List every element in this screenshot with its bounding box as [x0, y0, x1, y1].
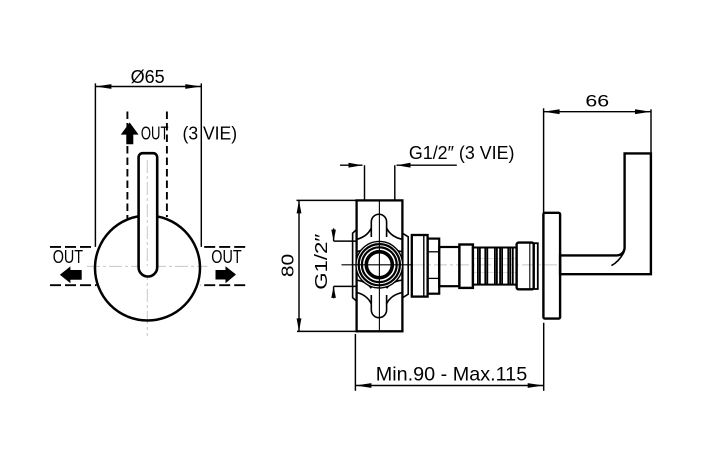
- svg-text:OUT: OUT: [211, 247, 241, 267]
- center line vertical left view: [146, 157, 148, 336]
- svg-text:G1/2″: G1/2″: [311, 234, 331, 290]
- dim 66 arrow right: [635, 109, 651, 114]
- dim 66 ext line left: [543, 108, 545, 213]
- svg-text:66: 66: [585, 93, 609, 111]
- svg-text:Ø65: Ø65: [131, 66, 165, 87]
- dim O65 arrow left: [95, 84, 111, 89]
- port circle 2: [359, 244, 400, 285]
- body bottom slot (dome): [371, 295, 386, 318]
- body center line horizontal: [342, 264, 413, 266]
- dim 80 arrow bottom: [297, 318, 302, 331]
- body flange left: [353, 230, 357, 302]
- svg-text:(3 VIE): (3 VIE): [183, 123, 238, 143]
- dim 80 ext line top: [297, 199, 356, 201]
- dim Min-Max ext line right: [543, 323, 545, 391]
- end block inner line: [529, 244, 531, 289]
- lever fillet arc: [611, 252, 624, 266]
- wing curve lower-left 1: [357, 293, 371, 304]
- dim G1/2 leader line right: [397, 164, 457, 166]
- dim G1/2 leader arrow right: [397, 163, 411, 168]
- dashed flow line right upper: [202, 246, 246, 248]
- body silhouette: [357, 200, 403, 331]
- end block outline: [517, 243, 534, 290]
- shaft block 2 inner line bottom: [428, 277, 440, 279]
- threaded section outline: [473, 248, 517, 285]
- center line horizontal left view: [87, 265, 208, 267]
- dim 80 ext line bottom: [297, 330, 356, 332]
- lever silhouette: [560, 153, 651, 274]
- hidden dashed line vertical right: [166, 112, 168, 218]
- dim O65 arrow right: [185, 84, 201, 89]
- port circle outer: [356, 241, 403, 288]
- thread groove lines: [478, 248, 513, 285]
- dim G1/2 port line bottom: [334, 285, 357, 287]
- hidden dashed line vertical left: [126, 112, 128, 220]
- OUT left arrow (filled): [60, 266, 82, 283]
- dim 66 ext line right: [650, 109, 652, 152]
- dim G1/2 leader line left: [340, 164, 363, 166]
- dashed flow line left lower: [50, 284, 97, 286]
- body center line vertical: [378, 200, 380, 331]
- dim G1/2 (3 VIE) ext line right: [394, 165, 396, 200]
- svg-text:80: 80: [277, 253, 297, 277]
- valve body outline: [357, 200, 403, 331]
- handle outline: [139, 153, 158, 276]
- OUT right arrow (filled): [216, 266, 237, 283]
- wing curve upper-left 1: [357, 228, 371, 239]
- wing curve lower-right 1: [387, 293, 402, 304]
- lever handle outline: [560, 153, 651, 274]
- dim O65 dimension line: [95, 86, 201, 88]
- dim G1/2 port arrow bottom: [333, 286, 335, 298]
- shaft block 2 outline: [428, 239, 440, 294]
- dim G1/2 port arrow top: [333, 228, 335, 241]
- wing curve upper-right 1: [387, 228, 402, 239]
- dim Min-Max dimension line: [355, 385, 543, 387]
- dim 80 dimension line: [298, 200, 300, 331]
- dim O65 extension line right: [200, 83, 202, 247]
- shaft block 1 outline: [412, 235, 428, 297]
- body flange right: [402, 233, 408, 298]
- port circle 3: [362, 247, 397, 282]
- handle inner center line segment (gray): [146, 160, 148, 266]
- circle silhouette: [95, 216, 200, 321]
- wing curve upper-left 2: [357, 244, 371, 252]
- svg-text:G1/2″ (3 VIE): G1/2″ (3 VIE): [409, 143, 515, 163]
- wall plate outline: [543, 213, 560, 319]
- shaft block 1 inner line: [423, 235, 425, 297]
- shaft block 2 inner line top: [428, 251, 440, 253]
- dim 66 dimension line: [544, 111, 651, 113]
- port circle inner thick ring: [366, 252, 392, 278]
- shaft silhouettes: [412, 235, 428, 297]
- dim Min-Max arrow left: [355, 383, 371, 388]
- wing curve lower-left 2: [357, 280, 371, 288]
- dim G1/2 (3 VIE) ext line left: [364, 165, 366, 200]
- dim Min-Max arrow right: [528, 383, 544, 388]
- thread shading line upper (gray): [474, 258, 516, 260]
- dashed flow line left upper: [50, 246, 95, 248]
- dim G1/2 leader arrow left: [349, 163, 363, 168]
- dim O65 extension line left: [94, 83, 96, 247]
- dim 66 arrow left: [544, 109, 560, 114]
- circle O65 outline: [95, 216, 200, 321]
- shaft cylinder outline: [439, 247, 459, 286]
- wing curve upper-right 2: [387, 244, 402, 252]
- dashed flow line right lower: [200, 284, 245, 286]
- svg-text:OUT: OUT: [141, 123, 169, 143]
- body top slot (dome): [371, 214, 386, 237]
- wing curve lower-right 2: [387, 280, 402, 288]
- OUT up arrow (filled): [121, 123, 139, 145]
- svg-text:OUT: OUT: [53, 247, 83, 267]
- svg-text:Min.90 - Max.115: Min.90 - Max.115: [376, 363, 528, 385]
- center line horizontal right view: [412, 264, 558, 266]
- dim Min-Max ext line left: [354, 334, 356, 391]
- thread shading line lower (gray): [474, 272, 516, 274]
- handle silhouette: [139, 153, 158, 276]
- dim 80 arrow top: [297, 200, 302, 213]
- shaft collar outline: [459, 245, 473, 288]
- dim G1/2 port line top: [334, 240, 357, 242]
- washer outline: [534, 243, 538, 289]
